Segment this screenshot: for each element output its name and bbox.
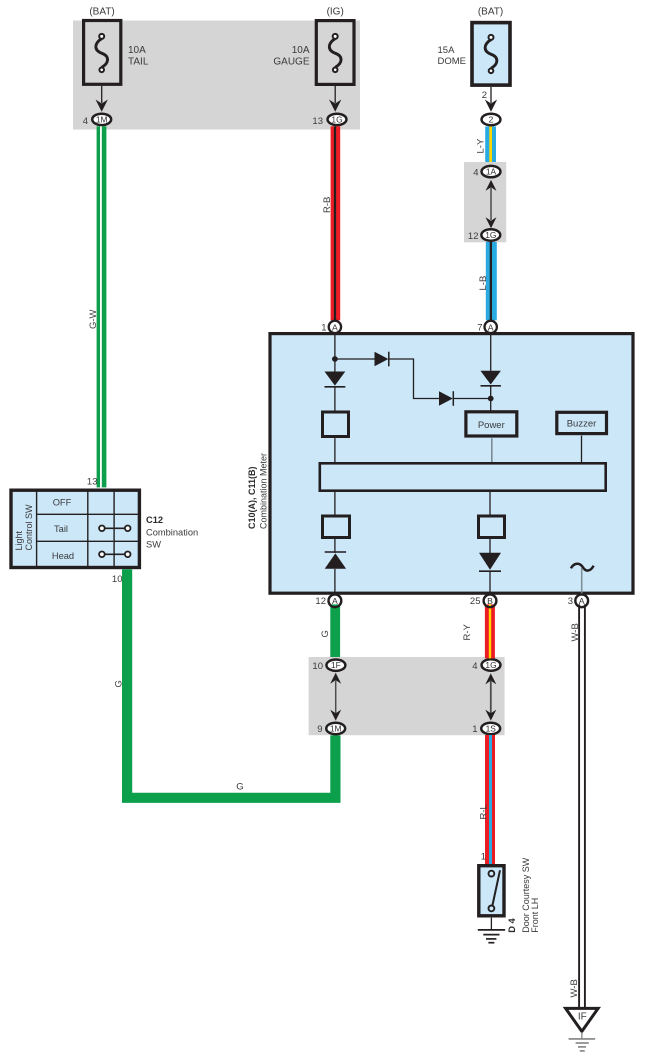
connector 1S pin 1 [481, 723, 500, 734]
pin 3 (A) white fill [575, 594, 588, 607]
svg-text:Tail: Tail [54, 524, 68, 534]
svg-text:1G: 1G [485, 230, 496, 240]
ground point IF [566, 1008, 599, 1031]
svg-text:(BAT): (BAT) [478, 7, 503, 18]
internal block (center lower square) [479, 516, 505, 538]
wire G-W [97, 126, 107, 487]
svg-text:1: 1 [472, 724, 477, 735]
svg-text:1G: 1G [331, 114, 342, 124]
contact Head row [102, 553, 128, 555]
svg-text:A: A [579, 596, 585, 606]
svg-text:TAIL: TAIL [128, 57, 149, 68]
wire square to diode D5 [334, 539, 336, 553]
svg-text:1: 1 [481, 852, 486, 863]
svg-text:Front LH: Front LH [530, 898, 540, 933]
wire Buzzer to bus [581, 436, 583, 462]
svg-text:G-W: G-W [88, 309, 99, 329]
svg-text:2: 2 [482, 90, 487, 101]
svg-text:4: 4 [83, 116, 88, 127]
svg-text:W-B: W-B [569, 979, 580, 997]
svg-text:4: 4 [472, 661, 477, 672]
wire R-L [485, 735, 495, 864]
wire diode D1 to diode D2 [389, 359, 439, 399]
pin 7 (A) [485, 321, 497, 333]
wire R-Y [485, 604, 495, 658]
diode D2 (right) [439, 391, 453, 406]
wire diode D2 to pin7 branch [453, 398, 490, 400]
svg-text:Buzzer: Buzzer [567, 419, 597, 430]
svg-text:W-B: W-B [570, 623, 581, 641]
svg-text:Head: Head [52, 551, 74, 561]
ground (D4) [478, 929, 505, 931]
internal block (left lower square) [323, 516, 350, 538]
svg-text:DOME: DOME [438, 56, 467, 67]
diode D4 (down, on pin7 branch) [481, 371, 501, 385]
svg-text:10A: 10A [128, 45, 146, 56]
inter-connector arrows [485, 673, 496, 684]
svg-text:25: 25 [470, 596, 481, 607]
arrow into connector 1G [329, 99, 341, 111]
svg-text:D 4: D 4 [507, 918, 517, 933]
arrow into connector 1M [96, 99, 108, 111]
wire fuse GAUGE to connector 1G [334, 86, 336, 103]
connector 1G pin 4 [482, 659, 501, 670]
svg-text:GAUGE: GAUGE [273, 57, 309, 68]
svg-text:1: 1 [321, 322, 326, 333]
svg-text:C10(A), C11(B): C10(A), C11(B) [247, 466, 257, 529]
svg-text:A: A [332, 596, 338, 606]
junction node [488, 396, 494, 402]
wire fuse DOME to connector 2 [490, 87, 492, 103]
svg-text:IF: IF [578, 1012, 587, 1023]
svg-text:A: A [488, 322, 494, 332]
inter-connector arrows [330, 673, 341, 684]
svg-text:9: 9 [317, 724, 322, 735]
wire to ground [490, 918, 492, 930]
svg-text:OFF: OFF [53, 497, 72, 507]
door courtesy switch D4 box [479, 866, 504, 916]
wire G (switch pin10 to connector 1M) [127, 569, 335, 798]
svg-text:13: 13 [87, 477, 98, 488]
svg-text:Combination: Combination [146, 528, 198, 538]
svg-text:10: 10 [112, 574, 123, 585]
svg-text:1F: 1F [331, 660, 341, 670]
connector 1G pin 12 [481, 229, 500, 240]
pin 25 (B) ring [484, 594, 497, 607]
coil/antenna tilde [571, 564, 594, 571]
wire L-B [486, 242, 497, 320]
svg-text:R-B: R-B [322, 197, 333, 213]
svg-text:C12: C12 [146, 515, 163, 525]
pin 3 (A) ring [575, 594, 588, 607]
svg-text:1A: 1A [486, 166, 497, 176]
fuse DOME 15A (BAT) [472, 23, 510, 86]
svg-text:1M: 1M [96, 114, 108, 124]
wire square to bus [334, 438, 336, 462]
wire Power to bus [491, 438, 493, 462]
svg-text:Power: Power [478, 420, 505, 431]
svg-text:SW: SW [146, 540, 161, 550]
diode D1 (right) [375, 352, 389, 367]
Buzzer box [557, 412, 607, 433]
svg-text:12: 12 [468, 231, 479, 242]
svg-text:12: 12 [315, 596, 326, 607]
connector band (DOME feed) [464, 162, 506, 242]
pin 12 (A) white fill [329, 594, 342, 607]
connector 1M pin 9 [326, 723, 345, 734]
ground (IF) [569, 1038, 596, 1040]
pin 25 (B) white fill [484, 594, 497, 607]
diode D3 (down, on pin1 branch) [325, 372, 346, 386]
svg-text:1G: 1G [485, 660, 496, 670]
diode D6 (down) [479, 553, 501, 570]
connector 1M pin 4 [92, 114, 111, 125]
junction node [332, 356, 338, 362]
wire W-B [578, 604, 580, 1008]
Power unit box [466, 412, 517, 436]
svg-text:7: 7 [477, 322, 482, 333]
internal block (left upper square) [323, 412, 349, 437]
connector band (middle) [309, 657, 505, 735]
svg-text:10: 10 [312, 661, 323, 672]
wire square to diode D6 [489, 539, 491, 553]
junction block gray band (top) [73, 21, 360, 130]
svg-text:R-Y: R-Y [462, 623, 473, 640]
svg-text:Light: Light [14, 530, 24, 550]
contact Tail row [102, 527, 128, 529]
wire to diode D1 [335, 358, 375, 360]
svg-text:G: G [114, 680, 125, 687]
internal bus bar [320, 463, 606, 490]
light control switch C12 box [11, 490, 139, 567]
svg-text:4: 4 [473, 167, 478, 178]
svg-text:2: 2 [489, 114, 494, 124]
svg-text:1M: 1M [330, 723, 342, 733]
connector 1A pin 4 [482, 166, 501, 177]
connector 2 [482, 114, 501, 125]
connector 1G pin 13 [328, 114, 347, 125]
svg-text:L-Y: L-Y [476, 138, 487, 153]
svg-text:B: B [487, 596, 493, 606]
switch contacts [492, 870, 500, 906]
wire bus to left lower square [334, 492, 336, 515]
connector 1F pin 10 [326, 660, 345, 671]
wire fuse TAIL to connector 1M [101, 86, 103, 103]
svg-text:15A: 15A [438, 45, 456, 56]
svg-text:G: G [320, 630, 331, 637]
svg-text:Combination Meter: Combination Meter [258, 453, 268, 529]
svg-text:G: G [236, 782, 243, 793]
svg-text:R-L: R-L [479, 804, 490, 819]
svg-text:L-B: L-B [478, 276, 489, 291]
svg-text:10A: 10A [292, 45, 310, 56]
diode D5 (up) [325, 551, 346, 553]
wire bus to center lower square [489, 492, 491, 515]
svg-text:Control SW: Control SW [24, 504, 34, 551]
fuse TAIL 10A (BAT) [84, 21, 121, 85]
internal wire from pin 1 [334, 333, 336, 372]
svg-text:1S: 1S [486, 723, 497, 733]
svg-text:3: 3 [568, 596, 573, 607]
wire G (pin 12A to connector 1F) [330, 604, 340, 658]
svg-text:13: 13 [312, 116, 323, 127]
inter-connector arrows [486, 180, 497, 191]
combination meter box C10(A), C11(B) [270, 334, 633, 594]
fuse GAUGE 10A (IG) [316, 21, 354, 85]
arrow into connector 2 [485, 99, 497, 111]
pin 12 (A) ring [329, 594, 342, 607]
internal wire from pin 7 [490, 333, 492, 371]
svg-text:A: A [332, 322, 338, 332]
svg-text:(BAT): (BAT) [89, 7, 114, 18]
wire L-Y [485, 127, 496, 165]
svg-text:(IG): (IG) [327, 7, 344, 18]
pin 1 (A) [329, 321, 341, 333]
wire R-B [331, 126, 341, 320]
